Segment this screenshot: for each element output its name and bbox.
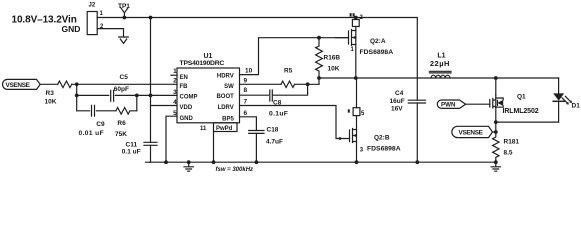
node: C18 at rail — [255, 160, 259, 164]
svg-text:0.1uF: 0.1uF — [269, 111, 288, 118]
node: Vin rail / EN-VDD vertical — [149, 16, 153, 20]
node A: feedback node — [75, 82, 79, 86]
svg-text:C18: C18 — [267, 127, 279, 134]
svg-text:6: 6 — [244, 110, 248, 117]
transistor Q2:A high-side FET — [355, 18, 357, 20]
svg-text:VSENSE: VSENSE — [459, 130, 484, 137]
wire: LDRV pin 7 to low-side gate — [240, 106, 350, 139]
svg-text:9: 9 — [244, 77, 248, 84]
svg-text:10: 10 — [245, 68, 253, 75]
svg-text:16V: 16V — [391, 106, 403, 113]
svg-text:R5: R5 — [284, 68, 293, 75]
svg-text:FB: FB — [180, 84, 189, 90]
resistor R3 — [58, 81, 72, 88]
node: gate line at R16B — [317, 36, 321, 40]
pin numbers U1 left — [173, 68, 177, 117]
ground (output side) — [491, 162, 500, 171]
wire: EN pin 1 stub — [171, 74, 177, 76]
svg-text:75K: 75K — [115, 131, 127, 138]
wire: VDD vertical from Vin rail down to C11 — [150, 18, 152, 143]
svg-text:R181: R181 — [504, 138, 520, 145]
svg-text:16uF: 16uF — [390, 98, 405, 105]
svg-text:7: 7 — [244, 99, 248, 106]
svg-text:BOOT: BOOT — [216, 94, 234, 100]
node: PwPd at rail — [212, 160, 216, 164]
svg-text:PwPd: PwPd — [216, 126, 233, 132]
wire: SW pin 9 segment with R5 — [240, 83, 282, 85]
pin names U1 right — [216, 74, 234, 123]
svg-text:IRLML2502: IRLML2502 — [503, 108, 539, 115]
svg-text:11: 11 — [200, 126, 207, 132]
svg-text:8.5: 8.5 — [504, 149, 513, 156]
svg-text:TP1: TP1 — [118, 3, 130, 10]
LED emission arrows — [562, 96, 571, 104]
svg-text:1: 1 — [173, 68, 177, 75]
svg-text:1: 1 — [351, 47, 355, 53]
svg-text:TPS40190DRC: TPS40190DRC — [180, 60, 225, 67]
svg-text:C5: C5 — [120, 74, 129, 81]
net flag PWM drive — [437, 100, 465, 108]
svg-text:3: 3 — [360, 148, 364, 154]
ground (J2 input) — [119, 37, 129, 43]
capacitor C11 — [144, 142, 157, 145]
wire: BP5 pin 6 to C18 — [240, 117, 257, 131]
capacitor C5 — [111, 90, 114, 101]
wire: VDD pin 4 stub — [151, 105, 178, 107]
svg-text:8: 8 — [244, 87, 248, 94]
pin numbers U1 right — [244, 68, 253, 117]
svg-text:1: 1 — [100, 11, 104, 17]
svg-text:4.7uF: 4.7uF — [266, 138, 283, 145]
svg-text:GND: GND — [180, 116, 194, 122]
svg-text:fsw = 300kHz: fsw = 300kHz — [216, 167, 254, 173]
svg-text:60pF: 60pF — [114, 86, 129, 93]
capacitor C4 input bypass — [416, 18, 418, 101]
node: COMP branch left — [75, 94, 79, 98]
capacitor C18 — [249, 131, 264, 134]
wire: Q2:A gate lead — [335, 37, 348, 39]
svg-text:R6: R6 — [117, 120, 126, 127]
svg-text:R3: R3 — [46, 90, 55, 97]
resistor R5 — [281, 81, 295, 87]
svg-text:Q1: Q1 — [517, 94, 526, 101]
wire: VSENSE flag to divider node — [493, 131, 496, 133]
transistor Q2:B low-side FET — [356, 78, 358, 108]
wire: COMP line with C5 — [77, 94, 177, 96]
svg-text:C11: C11 — [126, 142, 138, 149]
svg-text:PWN: PWN — [441, 102, 456, 109]
svg-text:COMP: COMP — [180, 95, 198, 101]
inductor L1 — [431, 75, 450, 78]
connector J2 — [87, 12, 97, 35]
svg-text:5: 5 — [361, 111, 365, 117]
svg-text:C9: C9 — [96, 121, 105, 128]
svg-text:10K: 10K — [45, 99, 57, 106]
svg-text:SW: SW — [224, 84, 234, 90]
wire: left bar of compensation network — [76, 84, 78, 111]
op-amp U1 controller TPS40190DRC — [177, 68, 240, 123]
wire: C11 to bottom rail — [150, 145, 152, 162]
node: C4 at rail — [415, 160, 419, 164]
transistor Q1 LED driver — [495, 78, 497, 95]
wire: bottom ground rail — [146, 161, 496, 163]
LED D1 — [558, 78, 560, 93]
wire: HDRV to high-side gate line — [240, 38, 349, 75]
node: BOOT cap tap on SW — [306, 82, 310, 86]
resistor R16B — [316, 38, 323, 85]
input voltage label — [12, 15, 81, 34]
wire: R5 to SW jog — [295, 83, 320, 85]
net flag VSENSE (output sense) — [452, 126, 493, 137]
node: TP1 junction — [123, 16, 127, 20]
node: R16B bottom on SW — [317, 76, 321, 80]
wire: PWM flag to Q1 gate — [466, 103, 490, 105]
wire: BOOT pin 8 with C8 — [240, 84, 308, 95]
svg-text:FDS6898A: FDS6898A — [367, 145, 401, 152]
capacitor C9 — [92, 105, 95, 116]
svg-text:4: 4 — [173, 99, 177, 106]
ground (main rail) — [184, 162, 193, 171]
svg-text:2: 2 — [173, 77, 177, 84]
resistor R6 — [116, 108, 137, 115]
svg-text:VDD: VDD — [180, 105, 193, 111]
wire: FB line from R3 to chip pin 2 — [72, 83, 177, 85]
pin names U1 left — [180, 75, 198, 122]
wire: right bar of compensation network — [136, 95, 138, 110]
svg-text:BP5: BP5 — [222, 117, 234, 123]
switching frequency label — [216, 167, 254, 173]
svg-text:FDS6898A: FDS6898A — [360, 49, 394, 56]
capacitor C8 — [270, 90, 273, 101]
test point TP1 — [118, 3, 130, 10]
svg-text:22µH: 22µH — [430, 59, 450, 68]
PowerPad pin 11 — [214, 123, 238, 132]
wire: LED cathode return to Q1 — [496, 121, 559, 123]
wire: GND pin 5 to bottom rail — [166, 116, 177, 162]
svg-text:Q2:A: Q2:A — [370, 38, 386, 45]
node: SW at FET junction — [354, 76, 358, 80]
svg-text:EN: EN — [180, 75, 188, 81]
svg-text:D1: D1 — [572, 103, 581, 110]
svg-text:GND: GND — [62, 24, 81, 34]
svg-text:10K: 10K — [328, 65, 340, 72]
svg-text:0.01 uF: 0.01 uF — [79, 130, 105, 137]
node: Q2:B source at rail — [355, 160, 359, 164]
wire: VSENSE to R3 — [40, 83, 58, 85]
svg-text:HDRV: HDRV — [217, 74, 234, 80]
svg-text:0.1 uF: 0.1 uF — [122, 149, 141, 156]
svg-text:C4: C4 — [395, 90, 404, 97]
node: network output to COMP — [135, 94, 139, 98]
svg-text:5: 5 — [173, 110, 177, 117]
resistor R181 — [493, 122, 499, 162]
wire: PwPd to bottom rail — [213, 132, 215, 163]
svg-text:LDRV: LDRV — [218, 105, 234, 111]
net flag VSENSE (feedback input) — [3, 79, 41, 89]
svg-text:3: 3 — [173, 89, 177, 96]
svg-text:J2: J2 — [89, 3, 96, 9]
svg-text:VSENSE: VSENSE — [6, 82, 31, 89]
node: R181 at rail end — [494, 160, 498, 164]
svg-text:R16B: R16B — [324, 54, 341, 61]
wire: top Vin rail — [97, 17, 416, 19]
svg-text:Q2:B: Q2:B — [374, 134, 390, 141]
wire: lower compensation branch — [77, 110, 116, 112]
node: GND at bottom rail — [164, 160, 168, 164]
wire: SW node line to LED branch corner — [319, 77, 559, 79]
wire: J2 pin 2 to ground — [97, 29, 123, 37]
wire: C18 to bottom rail — [255, 133, 257, 162]
node: COMP line at VDD vertical — [149, 94, 153, 98]
node: LED return at Q1 source — [494, 120, 498, 124]
svg-text:U1: U1 — [204, 53, 213, 60]
node: Vin rail / Q2:A drain — [354, 16, 358, 20]
node: VSENSE divider node — [494, 130, 498, 134]
